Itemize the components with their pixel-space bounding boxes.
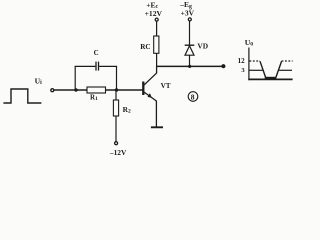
wire capacitor branch top left	[75, 65, 96, 67]
svg-text:C: C	[94, 49, 99, 57]
svg-text:+3V: +3V	[181, 9, 195, 18]
wire input to base node	[54, 89, 87, 91]
3-level line right	[278, 69, 292, 71]
collector rail wire	[156, 65, 223, 67]
capacitor C plates	[95, 62, 97, 71]
node B junction dot	[115, 88, 118, 91]
circled 8	[188, 92, 198, 102]
resistor RC	[154, 36, 159, 53]
transistor VT collector diagonal	[144, 73, 157, 85]
transistor VT emitter diagonal	[144, 92, 157, 101]
dotted 12-level left	[250, 60, 261, 62]
waveform falling edge	[260, 61, 266, 77]
wire diode to rail	[189, 55, 191, 66]
terminal -12V	[115, 142, 118, 145]
wire capacitor branch top right	[99, 65, 117, 67]
svg-text:VT: VT	[161, 82, 171, 90]
output terminal dot	[222, 65, 225, 68]
node A junction dot	[74, 88, 77, 91]
wire -Eg to diode	[189, 21, 191, 45]
graph y-axis	[248, 48, 250, 81]
svg-text:8: 8	[191, 92, 195, 101]
diode VD triangle	[185, 46, 194, 55]
svg-text:Ui: Ui	[35, 77, 42, 86]
svg-text:12: 12	[238, 57, 246, 65]
svg-text:VD: VD	[197, 42, 208, 51]
waveform rising edge	[276, 61, 282, 77]
diode rail junction dot	[188, 65, 191, 68]
svg-text:–12V: –12V	[109, 148, 127, 157]
dotted 12-level right	[282, 60, 293, 62]
resistor R1	[87, 87, 106, 93]
svg-text:3: 3	[241, 67, 245, 74]
graph x-axis baseline	[248, 78, 292, 80]
terminal +Ec	[155, 18, 158, 21]
svg-text:R2: R2	[123, 105, 131, 115]
input pulse waveform symbol	[3, 89, 41, 103]
wire +Ec to RC	[156, 21, 158, 36]
wire emitter vertical	[155, 101, 157, 127]
3-level line left	[250, 69, 264, 71]
wire RC to rail	[156, 53, 158, 67]
terminal -Eg	[188, 18, 191, 21]
svg-text:R1: R1	[90, 94, 98, 103]
input terminal	[51, 89, 54, 92]
svg-text:+12V: +12V	[145, 9, 163, 18]
wire collector vertical	[156, 66, 158, 73]
ground	[151, 126, 163, 128]
transistor VT base bar	[142, 82, 144, 96]
wire capacitor branch right vertical	[116, 66, 118, 90]
diode VD cathode bar	[185, 44, 195, 46]
svg-text:RC: RC	[140, 43, 150, 51]
wire R2 to -12V terminal	[115, 116, 117, 142]
emitter arrowhead	[148, 93, 152, 98]
waveform low level	[265, 77, 277, 79]
resistor R2	[113, 100, 118, 116]
wire R1 to base node B	[106, 89, 144, 91]
svg-text:U0: U0	[245, 38, 253, 48]
wire node B to R2	[115, 90, 117, 100]
wire capacitor branch left vertical	[74, 66, 76, 90]
